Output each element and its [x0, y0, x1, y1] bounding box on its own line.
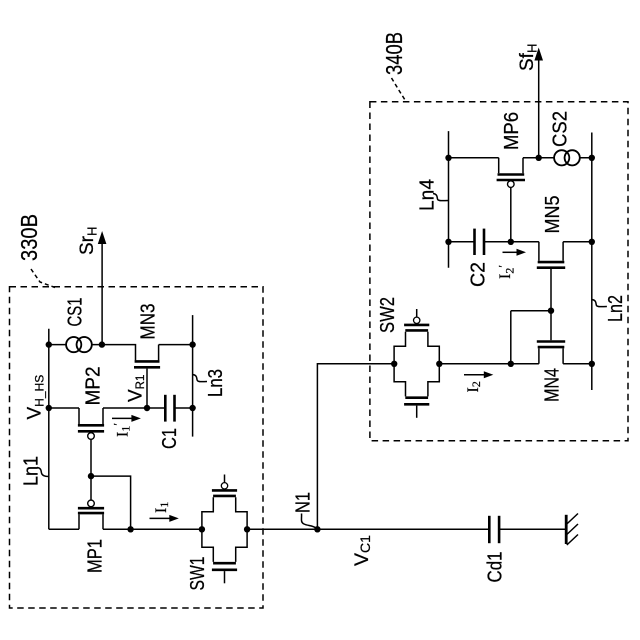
- wire CS1 row: [49, 344, 102, 346]
- svg-text:MN3: MN3: [137, 304, 160, 340]
- node CS1 right: [99, 341, 105, 347]
- wire gate link MP2-MP1: [91, 476, 131, 529]
- wire MP1 drain row: [103, 528, 202, 530]
- node SW1 left: [199, 526, 205, 532]
- node C1 right: [189, 405, 195, 411]
- node MN4 source rail: [589, 361, 595, 367]
- wire SrH output line: [101, 235, 103, 345]
- wire MN3 source: [159, 345, 193, 361]
- leader N1 squiggle: [301, 514, 316, 529]
- leader Ln3 squiggle: [193, 375, 207, 382]
- switch SW2: [394, 309, 439, 418]
- node MP6 gate: [508, 239, 514, 245]
- svg-text:N1: N1: [292, 492, 315, 513]
- svg-text:Cd1: Cd1: [484, 552, 507, 583]
- wire MP2 drain to C1: [103, 407, 165, 409]
- node VH_HS: [46, 405, 52, 411]
- capacitor C2: [473, 229, 476, 255]
- wire VH_HS row: [49, 407, 79, 409]
- svg-text:SW2: SW2: [376, 297, 399, 333]
- node VR1: [144, 405, 150, 411]
- node MN5 drain rail: [589, 239, 595, 245]
- wire MP1 source: [49, 528, 79, 530]
- svg-text:330B: 330B: [16, 214, 42, 261]
- node SW2 right: [436, 361, 442, 367]
- block 330B dashed box: [10, 287, 264, 608]
- transistor MN4: [550, 311, 552, 341]
- wire MN4 gate link: [511, 311, 551, 364]
- svg-text:Ln2: Ln2: [604, 295, 627, 322]
- node Ln4 top: [445, 155, 451, 161]
- svg-text:MP1: MP1: [84, 539, 107, 573]
- transistor MN5: [539, 242, 563, 261]
- capacitor C1: [164, 395, 167, 422]
- svg-text:SW1: SW1: [186, 557, 209, 591]
- svg-text:MN5: MN5: [541, 196, 564, 234]
- wire node N1 link to SW2: [317, 364, 394, 530]
- node CS1 left: [46, 341, 52, 347]
- node N1: [314, 526, 320, 532]
- capacitor Cd1: [488, 516, 491, 543]
- node C2 left: [445, 239, 451, 245]
- switch SW1: [202, 475, 247, 584]
- current source CS1: [66, 337, 92, 352]
- transistor MP2: [79, 408, 103, 424]
- leader Ln4 squiggle: [433, 194, 448, 201]
- wire C2 row: [449, 241, 475, 243]
- wire Ln1 rail: [48, 329, 50, 530]
- leader 330B: [31, 269, 55, 288]
- svg-text:340B: 340B: [381, 32, 407, 75]
- svg-text:MN4: MN4: [541, 368, 564, 402]
- node SW1 right: [244, 526, 250, 532]
- current arrow I1: [112, 252, 517, 518]
- svg-text:Ln4: Ln4: [416, 179, 439, 211]
- node SW2 left: [391, 361, 397, 367]
- wire MP6 drain to CS2: [523, 157, 592, 159]
- svg-text:Ln3: Ln3: [204, 369, 227, 397]
- node MP6 drain: [536, 155, 542, 161]
- svg-text:CS2: CS2: [549, 111, 572, 147]
- node MN3 source rail: [189, 341, 195, 347]
- wire MN3 drain: [102, 345, 135, 361]
- svg-text:CS1: CS1: [64, 298, 87, 327]
- wire Ln4 rail: [448, 131, 450, 268]
- transistor MN3: [135, 360, 160, 363]
- block 340B dashed box: [370, 102, 628, 441]
- node MP1 drain: [127, 526, 133, 532]
- node CS2 right: [589, 155, 595, 161]
- transistor MP6: [499, 158, 523, 173]
- wire Ln2 rail: [591, 133, 593, 391]
- leader 340B: [392, 78, 407, 102]
- wire SfH output line: [538, 50, 540, 158]
- transistor MP1: [90, 476, 92, 500]
- svg-text:C1: C1: [158, 428, 181, 449]
- node MN45 gates: [548, 308, 554, 314]
- wire MP6 source row: [449, 157, 499, 159]
- leader Ln1 squiggle: [37, 468, 49, 477]
- arrowhead SfH: [534, 48, 543, 61]
- node MP gate: [88, 473, 94, 479]
- current source CS2: [554, 150, 580, 165]
- svg-text:Ln1: Ln1: [20, 456, 43, 486]
- node MN4 drain: [508, 361, 514, 367]
- svg-text:C2: C2: [467, 262, 490, 287]
- arrowhead SrH: [98, 231, 107, 244]
- svg-text:MP6: MP6: [500, 112, 523, 150]
- wire Ln3 rail: [192, 315, 194, 437]
- leader Ln2 squiggle: [592, 300, 607, 307]
- ground: [565, 515, 568, 544]
- svg-text:MP2: MP2: [82, 367, 105, 406]
- wire SW2 to MN4 row: [439, 363, 592, 365]
- wire SW1 to Cd1: [247, 528, 489, 530]
